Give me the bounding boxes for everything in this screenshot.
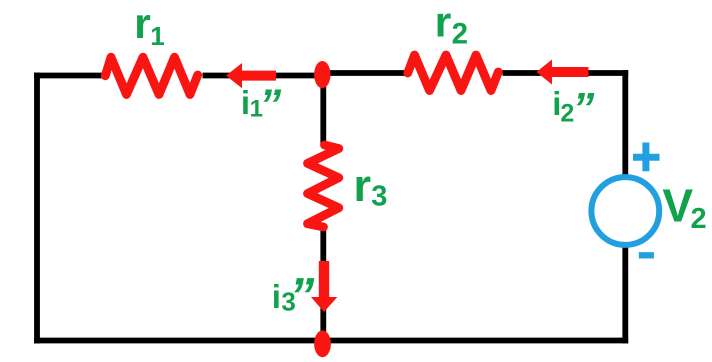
current arrow i1 bbox=[226, 63, 276, 88]
wire top-left segment bbox=[34, 73, 106, 79]
wire right lower bbox=[622, 244, 628, 343]
wire middle upper bbox=[320, 73, 326, 144]
voltage source V2 circle bbox=[591, 177, 659, 245]
wire middle lower bbox=[320, 230, 326, 343]
node dot bottom bbox=[314, 330, 331, 357]
wire bottom bbox=[34, 338, 628, 344]
minus sign bbox=[639, 252, 654, 258]
wire left vertical bbox=[34, 73, 40, 344]
wire top-right segment B bbox=[503, 70, 629, 76]
resistor r3 bbox=[308, 145, 339, 227]
plus sign bbox=[633, 143, 660, 172]
current arrow i2 bbox=[537, 60, 589, 85]
current arrow i3 bbox=[311, 261, 337, 312]
wire top-middle segment bbox=[203, 73, 325, 79]
resistor r1 bbox=[105, 57, 197, 94]
node dot top bbox=[314, 61, 330, 88]
wire right upper bbox=[622, 70, 628, 178]
resistor r2 bbox=[408, 55, 499, 91]
wire top-right segment A bbox=[322, 70, 409, 76]
